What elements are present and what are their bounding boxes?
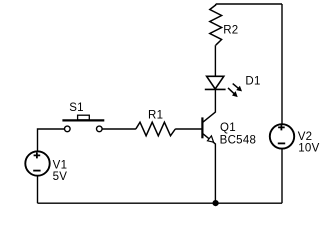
wire Q1 emitter to bottom rail (214, 144, 216, 204)
wire top rail (216, 3, 282, 5)
svg-text:V2: V2 (298, 131, 313, 143)
svg-text:10V: 10V (298, 143, 319, 155)
switch S1 (62, 115, 104, 132)
wire bottom rail (38, 202, 283, 204)
wire R2 to LED anode (214, 45, 216, 76)
voltage source V1 (25, 151, 49, 175)
wire right rail lower (281, 149, 283, 203)
wire V1 top lead to switch (38, 129, 65, 151)
svg-text:R1: R1 (148, 109, 163, 121)
resistor R1 (136, 122, 176, 136)
svg-text:BC548: BC548 (220, 135, 257, 147)
svg-text:D1: D1 (245, 76, 260, 88)
wire switch to R1 (102, 128, 136, 130)
node junction dot (213, 200, 219, 206)
resistor R2 (210, 4, 222, 45)
wire R1 to Q1 base (175, 128, 201, 130)
voltage source V2 (270, 124, 294, 148)
svg-text:S1: S1 (69, 102, 84, 114)
transistor Q1 (202, 112, 215, 144)
wire V1 bottom lead (37, 176, 39, 204)
svg-text:5V: 5V (53, 171, 68, 183)
wire Q1 collector to LED (214, 89, 216, 112)
svg-text:Q1: Q1 (220, 122, 236, 134)
LED D1 (205, 76, 242, 97)
svg-text:R2: R2 (223, 24, 238, 36)
svg-text:V1: V1 (53, 159, 68, 171)
wire right rail upper (281, 4, 283, 125)
